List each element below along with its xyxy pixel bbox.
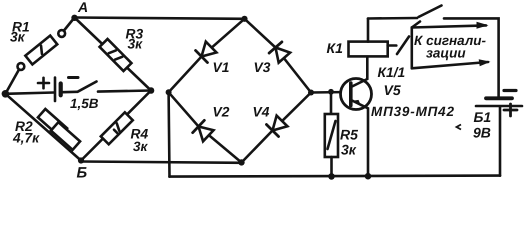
svg-text:зации: зации: [426, 46, 466, 61]
wire: left vertex to battery G1: [5, 93, 54, 94]
wire: junction down to R5: [330, 92, 333, 114]
relay K1 coil: [349, 42, 388, 57]
right vertex junction dot: [148, 87, 155, 94]
label + polarity of B1: [504, 104, 517, 116]
label V2: [213, 105, 230, 120]
label V3: [254, 60, 271, 75]
wire: diode bridge edge top to right: [245, 19, 312, 93]
node A junction dot: [71, 15, 77, 21]
callout to signalling: bracket and arrows: [412, 22, 491, 69]
wire: relay right stub to contact: [388, 44, 397, 47]
svg-text:3к: 3к: [10, 30, 26, 45]
diode bridge top vertex dot: [241, 16, 247, 22]
wire: R1 upper terminal to node A: [64, 18, 75, 31]
stray scan mark: [457, 125, 462, 130]
transistor V5 base bar: [349, 83, 353, 106]
label V1: [213, 60, 230, 75]
label R1 3k: [10, 20, 30, 45]
node: emitter bottom rail junction dot: [365, 173, 372, 180]
wire: switch to right vertex: [98, 91, 151, 92]
label MP39-MP42: [371, 104, 454, 119]
label K signalizacii: [414, 33, 487, 61]
resistor R5 body: [325, 114, 338, 157]
label - polarity of B1: [504, 89, 516, 92]
svg-text:V4: V4: [253, 105, 270, 120]
diode bridge left vertex dot: [166, 89, 172, 95]
wire: diode bridge edge bottom to right: [242, 93, 312, 163]
wire: diode bridge edge left to bottom: [169, 92, 242, 162]
resistor R4 body: [101, 112, 133, 144]
svg-text:3к: 3к: [341, 142, 357, 158]
wire: node A to diode bridge top: [75, 18, 245, 19]
relay contact K1/1 blade: [397, 37, 409, 55]
diode V3: [269, 42, 291, 63]
wire: diode bridge edge top to left: [169, 19, 245, 93]
diode bridge bottom vertex dot: [238, 159, 244, 165]
node: R5 top junction dot: [328, 89, 334, 95]
wire: R5 to bottom rail: [330, 157, 333, 176]
label R3 3k: [126, 27, 144, 52]
battery B1 9V plates: [476, 98, 522, 106]
diode bridge right vertex dot: [308, 90, 314, 96]
transistor V5 emitter lead with arrow: [352, 100, 368, 176]
label node A: [77, 0, 88, 15]
label B1 9V: [473, 109, 491, 141]
switch blade on top rail (open): [419, 6, 442, 18]
label V4: [253, 105, 270, 120]
wire: top supply rail left part: [368, 17, 417, 20]
svg-text:3к: 3к: [128, 37, 144, 52]
svg-text:V5: V5: [384, 82, 401, 98]
wire: bridge edge node A to right vertex (R3 arm): [75, 18, 152, 91]
switch SA1 blade (open): [78, 82, 97, 92]
svg-text:V3: V3: [254, 60, 271, 75]
label R4 3k: [131, 127, 149, 155]
wire: diode bridge left vertex down to bottom rail: [167, 92, 170, 176]
svg-text:МП39-МП42: МП39-МП42: [371, 104, 454, 119]
wire: bridge edge node B to right vertex (R4 arm): [81, 91, 151, 161]
wire: bridge edge left-vertex to node B (R2 arm): [5, 94, 81, 161]
label R5 3k: [340, 127, 358, 158]
label 1,5V: [70, 96, 99, 111]
battery G1 1,5V plates: [55, 78, 61, 102]
svg-text:V2: V2: [213, 105, 230, 120]
diode V1: [196, 41, 218, 63]
label node B: [77, 165, 88, 182]
label V5: [384, 82, 401, 98]
svg-text:9В: 9В: [473, 125, 491, 141]
diode V2: [193, 120, 214, 142]
wire: top supply rail right part: [444, 18, 499, 98]
svg-text:К1/1: К1/1: [378, 65, 406, 80]
svg-text:V1: V1: [213, 60, 230, 75]
svg-text:R5: R5: [340, 127, 358, 143]
label K1: [327, 40, 344, 56]
resistor R1 body with terminal circles: [18, 30, 66, 70]
label + polarity of G1: [38, 78, 49, 88]
wire: battery to switch stub: [63, 91, 78, 94]
svg-text:К1: К1: [327, 40, 344, 56]
wire: node B to diode bridge bottom: [81, 162, 242, 163]
wire: bridge edge left-vertex to R1 lower terminal: [5, 70, 19, 94]
svg-text:Б: Б: [77, 165, 88, 182]
node: R5 bottom rail junction dot: [328, 173, 335, 180]
label K1/1: [378, 65, 406, 80]
svg-text:3к: 3к: [133, 139, 149, 154]
resistor R2 body (double outline): [38, 109, 80, 150]
label - polarity of G1: [69, 76, 79, 79]
wire: bottom rail: [170, 176, 501, 177]
wire: battery B1 bottom to rail: [499, 106, 502, 175]
svg-text:Б1: Б1: [474, 109, 492, 125]
left vertex junction dot: [2, 90, 10, 98]
wire: relay coil top to supply rail: [367, 19, 370, 42]
resistor R3 body: [100, 39, 132, 71]
wire: diode bridge right vertex to base of V5: [311, 91, 349, 94]
svg-text:А: А: [77, 0, 88, 15]
node B junction dot: [78, 157, 84, 163]
transistor V5 circle: [341, 79, 372, 110]
svg-text:1,5В: 1,5В: [70, 96, 99, 111]
transistor V5 collector lead: [352, 56, 367, 86]
diode V4: [266, 115, 288, 137]
label R2 4,7k: [12, 119, 40, 146]
svg-text:4,7к: 4,7к: [12, 131, 40, 146]
